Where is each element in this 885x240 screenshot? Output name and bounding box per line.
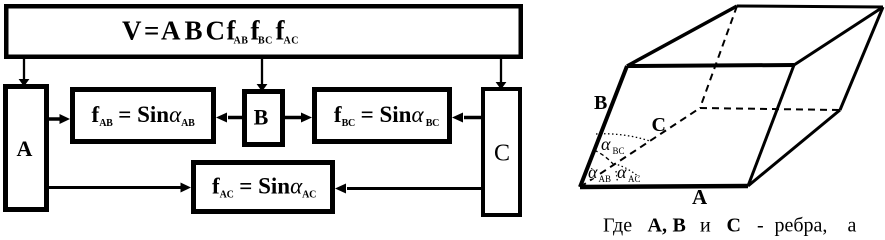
- wire V to A: [23, 59, 25, 80]
- parallelepiped top front edge: [627, 65, 794, 66]
- svg-text:A: A: [692, 185, 708, 209]
- wire C to fBC: [464, 116, 483, 120]
- svg-text:Где: Где: [603, 215, 632, 237]
- wire A to fAC: [47, 186, 181, 189]
- arrowhead into C: [496, 82, 507, 90]
- svg-text:=: =: [144, 16, 159, 46]
- wire C to fAC: [347, 187, 483, 190]
- arrowhead into fBC left: [301, 113, 312, 123]
- hidden back left edge (dashed): [700, 6, 737, 108]
- box fAC: [194, 163, 333, 212]
- angle arc BC dashed: [594, 150, 614, 165]
- svg-text:B: B: [594, 92, 607, 114]
- parallelepiped front right edge: [748, 65, 794, 186]
- svg-text:А,: А,: [648, 215, 667, 237]
- arrowhead into fAC right: [335, 184, 346, 194]
- hidden edge C (dashed): [580, 108, 700, 187]
- svg-text:BC: BC: [613, 146, 625, 156]
- box V (top formula box): [6, 6, 521, 57]
- svg-text:B: B: [254, 105, 269, 130]
- svg-text:C: C: [206, 16, 226, 46]
- angle divider dotted: [616, 171, 618, 182]
- parallelepiped top right diagonal edge: [794, 7, 883, 65]
- angle arc BC dotted: [596, 134, 650, 141]
- parallelepiped right back edge: [840, 7, 883, 110]
- parallelepiped top left diagonal edge: [627, 6, 737, 66]
- arrowhead into A: [19, 79, 30, 87]
- parallelepiped bottom right diagonal edge: [748, 110, 840, 186]
- arrowhead into fAB left: [60, 114, 71, 124]
- svg-text:AC: AC: [284, 36, 299, 47]
- box B: [245, 92, 283, 145]
- wire V to B: [261, 59, 263, 85]
- svg-text:и: и: [700, 215, 711, 237]
- svg-text:C: C: [652, 114, 666, 136]
- caption text: [603, 215, 857, 237]
- arrowhead into fAB right: [216, 113, 227, 123]
- box fAB: [73, 90, 214, 142]
- wire A to fAB: [47, 117, 60, 121]
- svg-text:A: A: [17, 136, 33, 161]
- svg-text:С: С: [727, 215, 741, 237]
- svg-text:A: A: [161, 16, 181, 46]
- svg-text:BC: BC: [258, 36, 273, 47]
- box A: [6, 87, 47, 210]
- label V = A B C fAB fBC fAC: [122, 16, 299, 47]
- svg-text:α: α: [617, 162, 627, 182]
- wire B to fBC: [283, 116, 301, 120]
- svg-text:AC: AC: [628, 174, 641, 184]
- box fBC: [315, 90, 450, 142]
- svg-text:α: α: [588, 162, 598, 182]
- parallelepiped top back edge: [737, 6, 883, 7]
- svg-text:V: V: [122, 16, 142, 46]
- svg-text:ребра,: ребра,: [775, 215, 828, 237]
- svg-text:α: α: [601, 134, 611, 154]
- arrowhead into fBC right: [452, 113, 463, 123]
- angle arc AB dotted: [588, 167, 599, 173]
- wire V to C: [500, 59, 502, 83]
- box C: [483, 89, 520, 215]
- arrowhead into B: [257, 84, 268, 92]
- svg-text:C: C: [494, 141, 510, 167]
- svg-text:B: B: [185, 16, 203, 46]
- parallelepiped left front edge B: [580, 66, 627, 187]
- svg-text:AB: AB: [599, 174, 612, 184]
- svg-text:AB: AB: [234, 36, 249, 47]
- angle arc AC dotted: [614, 164, 640, 179]
- arrowhead into fAC left: [181, 183, 192, 193]
- wire B to fAB: [228, 116, 244, 120]
- parallelepiped bottom front edge A: [580, 186, 748, 187]
- svg-text:В: В: [673, 215, 686, 237]
- svg-text:а: а: [848, 215, 857, 237]
- hidden back bottom edge (dashed): [700, 108, 840, 110]
- svg-text:-: -: [757, 215, 764, 237]
